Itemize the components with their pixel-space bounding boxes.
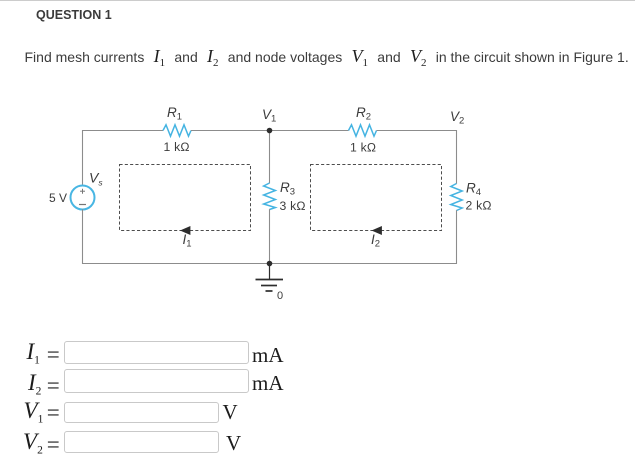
svg-text:R1: R1 xyxy=(167,105,182,123)
wire left edge lower xyxy=(82,209,84,264)
ground xyxy=(256,264,284,292)
resistor R2 xyxy=(349,125,377,136)
label 1 kOhm (R2) xyxy=(350,141,376,155)
svg-text:5 V: 5 V xyxy=(49,191,67,205)
svg-text:I2: I2 xyxy=(371,232,380,250)
answer row V1 xyxy=(0,399,635,429)
label R1 xyxy=(167,105,182,123)
svg-text:3 kΩ: 3 kΩ xyxy=(280,199,306,213)
voltage source Vs xyxy=(71,186,95,210)
svg-text:1 kΩ: 1 kΩ xyxy=(164,140,190,154)
mesh 2 dashed loop xyxy=(311,165,442,231)
wire bottom xyxy=(82,263,457,265)
label 5 V xyxy=(49,191,67,205)
label 2 kOhm (R4) xyxy=(466,198,492,212)
wire right edge lower xyxy=(456,210,458,264)
svg-text:V1: V1 xyxy=(262,107,276,125)
resistor R1 xyxy=(163,125,191,136)
label R4 xyxy=(466,181,481,199)
wire middle branch lower xyxy=(269,209,271,263)
svg-text:R2: R2 xyxy=(356,105,371,123)
answer row V2 xyxy=(0,428,635,458)
wire top-middle segment xyxy=(191,130,349,132)
wire middle branch upper xyxy=(269,131,271,184)
node V1 junction dot xyxy=(267,128,273,134)
svg-text:V2: V2 xyxy=(450,109,464,127)
svg-text:R4: R4 xyxy=(466,181,481,199)
circuit figure xyxy=(0,0,635,330)
resistor R3 xyxy=(264,183,276,210)
label V1 xyxy=(262,107,276,125)
label 1 kOhm (R1) xyxy=(164,140,190,154)
mesh 1 current arrow I1 xyxy=(180,226,190,235)
header top border xyxy=(0,0,635,1)
svg-text:2 kΩ: 2 kΩ xyxy=(466,198,492,212)
wire left edge upper xyxy=(82,130,84,186)
answer row I2 xyxy=(0,367,635,397)
mesh 2 current arrow I2 xyxy=(372,226,382,235)
answer row I1 xyxy=(0,338,635,368)
question text xyxy=(25,46,635,67)
mesh 1 dashed loop xyxy=(120,165,251,231)
label I2 xyxy=(371,232,380,250)
label Vs xyxy=(89,170,103,188)
svg-text:1 kΩ: 1 kΩ xyxy=(350,141,376,155)
wire top-left segment xyxy=(82,130,163,132)
label 3 kOhm (R3) xyxy=(280,199,306,213)
header title xyxy=(36,8,112,22)
wire right edge upper xyxy=(456,130,458,184)
label I1 xyxy=(183,232,192,250)
svg-text:R3: R3 xyxy=(280,180,295,198)
svg-text:Vs: Vs xyxy=(89,170,103,188)
wire top-right segment xyxy=(377,130,458,132)
node bottom junction dot xyxy=(267,261,273,267)
svg-text:0: 0 xyxy=(277,290,283,302)
resistor R4 xyxy=(451,184,462,211)
label R2 xyxy=(356,105,371,123)
label R3 xyxy=(280,180,295,198)
ground label 0 xyxy=(277,290,283,302)
label V2 xyxy=(450,109,464,127)
